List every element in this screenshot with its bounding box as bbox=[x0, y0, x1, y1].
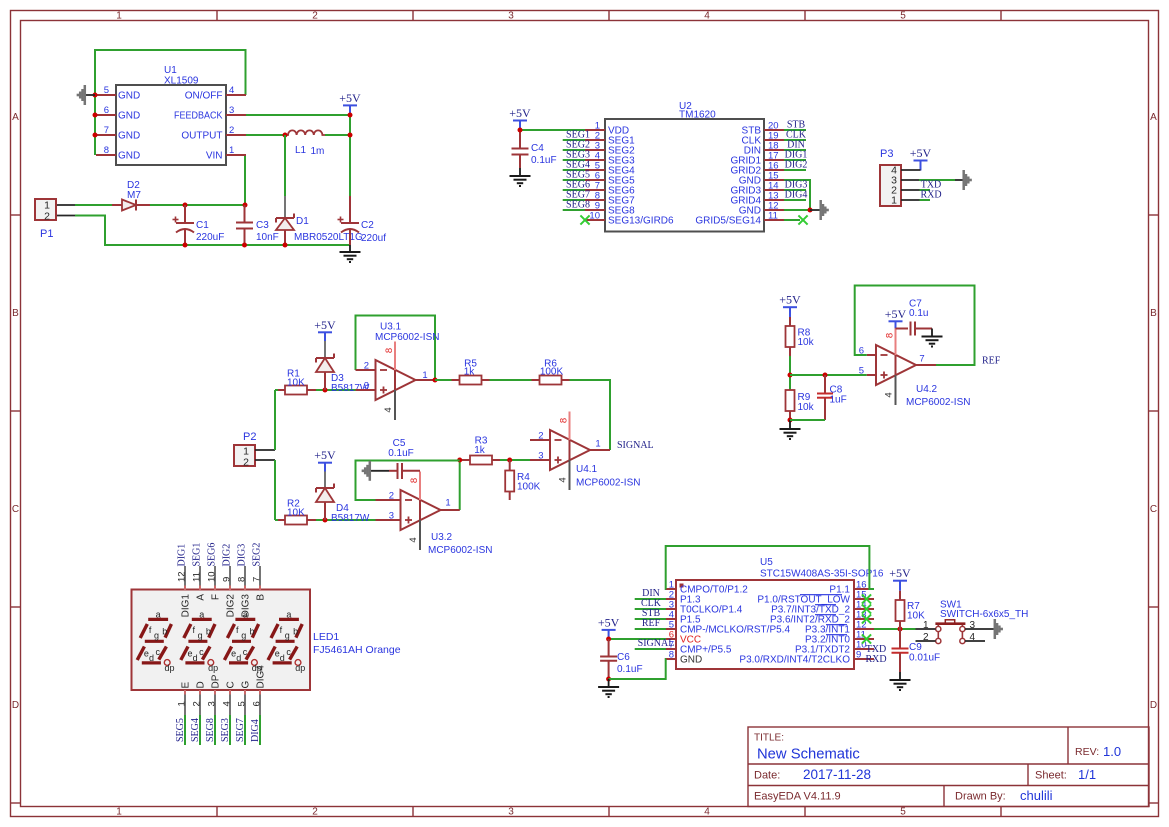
svg-text:TM1620: TM1620 bbox=[679, 110, 716, 121]
svg-text:0.1uF: 0.1uF bbox=[617, 664, 643, 675]
junction R8/R9 bbox=[788, 373, 793, 378]
svg-text:1: 1 bbox=[445, 498, 450, 509]
svg-text:2: 2 bbox=[243, 457, 249, 469]
net label SEG1 LED1 top bbox=[192, 543, 203, 567]
wire P1 pin1 stub bbox=[56, 204, 75, 206]
svg-text:3: 3 bbox=[389, 511, 394, 522]
net label DIG4 bbox=[785, 190, 808, 201]
net label SIGNAL bbox=[617, 440, 654, 451]
junction R9 bottom bbox=[788, 418, 793, 423]
svg-text:8: 8 bbox=[237, 577, 248, 582]
ground flag at P3 pin3 bbox=[964, 170, 971, 190]
net label DIG3 bbox=[785, 180, 808, 191]
net label SEG1 bbox=[566, 130, 590, 141]
svg-text:U1: U1 bbox=[164, 65, 177, 76]
svg-text:P3: P3 bbox=[880, 148, 893, 160]
svg-text:c: c bbox=[156, 647, 161, 657]
net label DIG1 bbox=[785, 150, 808, 161]
svg-text:220uf: 220uf bbox=[361, 233, 386, 244]
junction C1 bottom bbox=[183, 243, 188, 248]
junction VDD bbox=[518, 128, 523, 133]
net label TXD U5 bbox=[866, 644, 887, 655]
svg-text:B: B bbox=[256, 594, 267, 601]
svg-text:7: 7 bbox=[104, 125, 109, 136]
svg-text:c: c bbox=[199, 647, 204, 657]
power flag +5V at P3 bbox=[910, 146, 932, 171]
svg-text:GRID5/SEG14: GRID5/SEG14 bbox=[695, 216, 761, 227]
svg-text:2017-11-28: 2017-11-28 bbox=[803, 767, 871, 782]
svg-text:a: a bbox=[243, 610, 248, 620]
svg-text:DIG1: DIG1 bbox=[177, 544, 188, 567]
svg-text:SEG8: SEG8 bbox=[205, 718, 216, 742]
svg-text:12: 12 bbox=[177, 571, 188, 582]
diode D2 M7 bbox=[112, 180, 150, 211]
svg-text:C4: C4 bbox=[531, 143, 544, 154]
junction U2 GND bbox=[808, 208, 813, 213]
net label DIG1 LED1 top bbox=[177, 544, 188, 567]
wire net DIG3 bbox=[784, 189, 806, 191]
wire net SEG7 bbox=[563, 199, 585, 201]
svg-text:DIG4: DIG4 bbox=[785, 190, 808, 201]
svg-text:1uF: 1uF bbox=[830, 395, 847, 406]
diode D3 B5817W bbox=[316, 341, 370, 394]
junction pin5 bbox=[93, 93, 98, 98]
svg-text:+5V: +5V bbox=[779, 293, 801, 307]
svg-text:MCP6002-ISN: MCP6002-ISN bbox=[906, 397, 970, 408]
wire net SEG4 bbox=[199, 715, 201, 745]
LED display LED1 FJ5461AH bbox=[132, 590, 401, 691]
svg-text:SEG3: SEG3 bbox=[220, 718, 231, 742]
svg-text:DIG1: DIG1 bbox=[181, 594, 192, 618]
net label SEG6 bbox=[566, 180, 590, 191]
connector P2 bbox=[234, 431, 256, 469]
net label DIG3 LED1 top bbox=[237, 544, 248, 567]
IC U1 XL1509 bbox=[96, 65, 246, 165]
svg-text:10: 10 bbox=[589, 211, 600, 222]
svg-text:1: 1 bbox=[229, 145, 234, 156]
power flag +5V at U2 VDD bbox=[509, 106, 531, 131]
wire P2 pin2 to R2 bbox=[255, 460, 278, 520]
svg-text:+5V: +5V bbox=[509, 106, 531, 120]
capacitor C2 220uf bbox=[338, 196, 387, 245]
junction L1 left bbox=[283, 133, 288, 138]
ground earth below C4 bbox=[510, 168, 531, 186]
wire U3.1 feedback loop bbox=[356, 316, 436, 381]
junction R3/R4 bbox=[507, 458, 512, 463]
pin 12 LED1 top bbox=[177, 566, 192, 617]
svg-text:c: c bbox=[286, 647, 291, 657]
svg-text:GND: GND bbox=[118, 151, 140, 162]
wire net SEG5 bbox=[563, 179, 585, 181]
svg-text:2: 2 bbox=[44, 211, 50, 223]
wire C8 bottom to R9 bottom bbox=[790, 419, 825, 421]
svg-text:100K: 100K bbox=[540, 367, 564, 378]
svg-text:C3: C3 bbox=[256, 220, 269, 231]
capacitor C8 1uF bbox=[817, 375, 847, 420]
inductor L1 bbox=[285, 130, 325, 157]
svg-text:1: 1 bbox=[891, 195, 897, 207]
net label DIG2 LED1 top bbox=[222, 544, 233, 567]
svg-text:4: 4 bbox=[229, 85, 234, 96]
svg-text:b: b bbox=[206, 627, 211, 637]
svg-text:a: a bbox=[156, 610, 161, 620]
wire U2 pin11 bbox=[784, 219, 800, 221]
svg-text:4: 4 bbox=[408, 537, 419, 542]
svg-text:M7: M7 bbox=[127, 190, 141, 201]
svg-text:SEG1: SEG1 bbox=[192, 543, 203, 567]
net label RXD U5 bbox=[865, 654, 886, 665]
svg-text:220uF: 220uF bbox=[196, 232, 224, 243]
pin 8 LED1 top bbox=[237, 566, 252, 617]
pin 5 LED1 bottom bbox=[236, 681, 251, 716]
net label TXD at P3 bbox=[921, 180, 942, 191]
svg-text:XL1509: XL1509 bbox=[164, 76, 199, 87]
svg-text:A: A bbox=[1150, 112, 1157, 123]
junction +5V feedback bbox=[348, 113, 353, 118]
wire SW1 pin2 bbox=[916, 640, 936, 642]
wire SW1 pin1 bbox=[916, 628, 936, 630]
svg-text:8: 8 bbox=[104, 145, 109, 156]
wire net SEG6 bbox=[563, 189, 585, 191]
svg-text:2: 2 bbox=[312, 11, 318, 22]
svg-text:8: 8 bbox=[559, 418, 570, 423]
op-amp U3.2 MCP6002-ISN bbox=[376, 472, 493, 557]
svg-text:4: 4 bbox=[704, 11, 710, 22]
svg-text:3: 3 bbox=[508, 11, 514, 22]
svg-text:GND: GND bbox=[118, 131, 140, 142]
svg-text:MBR0520LT1G: MBR0520LT1G bbox=[294, 232, 363, 243]
op-amp U3.1 MCP6002-ISN bbox=[356, 322, 440, 421]
svg-text:1k: 1k bbox=[464, 367, 476, 378]
svg-text:9: 9 bbox=[856, 650, 861, 661]
svg-text:10: 10 bbox=[207, 571, 218, 582]
pin 9 LED1 top bbox=[222, 566, 237, 617]
svg-text:5: 5 bbox=[859, 366, 864, 377]
7-segment digit 4 bbox=[268, 610, 305, 674]
net label DIN bbox=[787, 140, 805, 151]
svg-text:GND: GND bbox=[118, 91, 140, 102]
svg-text:B: B bbox=[1150, 308, 1157, 319]
svg-text:SIGNAL: SIGNAL bbox=[617, 440, 654, 451]
svg-text:B: B bbox=[12, 308, 19, 319]
net label REF bbox=[982, 356, 1001, 367]
net label SEG5 bbox=[566, 170, 590, 181]
wire net SEG8 bbox=[563, 209, 585, 211]
svg-text:100K: 100K bbox=[517, 482, 541, 493]
svg-text:U3.1: U3.1 bbox=[380, 322, 402, 333]
svg-text:1: 1 bbox=[422, 370, 427, 381]
svg-text:d: d bbox=[193, 653, 198, 663]
wire net SEG1 bbox=[563, 139, 585, 141]
capacitor C7 0.1u bbox=[896, 299, 933, 336]
svg-text:1.0: 1.0 bbox=[1103, 744, 1121, 759]
wire U3.2 feedback loop bbox=[356, 461, 460, 511]
no-connect X U2 pin 10 bbox=[580, 215, 589, 224]
op-amp U4.2 MCP6002-ISN bbox=[859, 327, 971, 409]
svg-text:C: C bbox=[12, 504, 19, 515]
net label SEG8 LED1 bottom bbox=[205, 718, 216, 742]
svg-text:SEG13/GIRD6: SEG13/GIRD6 bbox=[608, 216, 674, 227]
no-connect X U2 pin 11 bbox=[798, 215, 807, 224]
wire U2 GND pin12 bbox=[784, 209, 810, 211]
svg-text:+5V: +5V bbox=[885, 307, 907, 321]
junction pin6 bbox=[93, 113, 98, 118]
power flag +5V at U5 VCC bbox=[598, 615, 620, 640]
svg-text:C6: C6 bbox=[617, 652, 630, 663]
IC U5 STC15W408AS bbox=[666, 557, 884, 669]
wire P2 pin1 to R1 bbox=[255, 390, 278, 450]
svg-text:6: 6 bbox=[251, 701, 262, 706]
svg-text:9: 9 bbox=[222, 577, 233, 582]
wire net SEG4 bbox=[563, 169, 585, 171]
svg-text:2: 2 bbox=[229, 125, 234, 136]
svg-text:REV:: REV: bbox=[1075, 746, 1099, 758]
wire P1 pin2 to ground rail bbox=[56, 216, 350, 246]
svg-text:B5817W: B5817W bbox=[331, 513, 370, 524]
wire R5 to R6 bbox=[490, 379, 532, 381]
junction D1 bottom bbox=[283, 243, 288, 248]
ground flag at U2 GND bbox=[810, 200, 828, 220]
wire net SIGNAL U5 bbox=[635, 648, 666, 650]
svg-text:MCP6002-ISN: MCP6002-ISN bbox=[428, 545, 492, 556]
svg-text:G: G bbox=[240, 681, 251, 689]
svg-text:D: D bbox=[1150, 700, 1157, 711]
svg-text:a: a bbox=[286, 610, 291, 620]
wire P3 pin3 to ground bbox=[901, 179, 963, 181]
resistor R6 100K bbox=[532, 359, 570, 385]
pin 11 LED1 top bbox=[192, 566, 207, 601]
svg-text:1/1: 1/1 bbox=[1078, 767, 1096, 782]
svg-text:Drawn By:: Drawn By: bbox=[955, 791, 1006, 803]
wire U5 pin1 loop to pin16 bbox=[666, 546, 874, 589]
svg-text:10k: 10k bbox=[798, 337, 815, 348]
svg-text:U4.1: U4.1 bbox=[576, 464, 598, 475]
svg-text:+5V: +5V bbox=[889, 566, 911, 580]
wire net SEG8 bbox=[214, 715, 216, 745]
capacitor C4 0.1uF bbox=[512, 130, 557, 168]
wire D2 output node bbox=[75, 204, 245, 206]
junction C8 top bbox=[823, 373, 828, 378]
wire R8 to R9 bbox=[789, 356, 791, 390]
net label RXD at P3 bbox=[920, 190, 941, 201]
junction U3.1 output bbox=[433, 378, 438, 383]
svg-text:OUTPUT: OUTPUT bbox=[181, 131, 222, 142]
ground earth below C6 bbox=[598, 679, 619, 697]
svg-text:SEG8: SEG8 bbox=[566, 200, 590, 211]
no-connect X U5 pin at y=609 bbox=[862, 604, 871, 613]
wire net SEG2 bbox=[563, 149, 585, 151]
capacitor C1 220uF bbox=[173, 205, 225, 245]
svg-text:10k: 10k bbox=[798, 402, 815, 413]
svg-text:Sheet:: Sheet: bbox=[1035, 770, 1067, 782]
svg-text:7: 7 bbox=[919, 354, 924, 365]
svg-text:2: 2 bbox=[364, 361, 369, 372]
svg-text:b: b bbox=[162, 627, 167, 637]
net label DIG4 LED1 bottom bbox=[250, 719, 261, 742]
svg-text:2: 2 bbox=[191, 701, 202, 706]
wire net SEG3 bbox=[563, 159, 585, 161]
svg-text:LED1: LED1 bbox=[313, 631, 339, 643]
no-connect X U5 pin at y=619 bbox=[862, 614, 871, 623]
junction pin7 bbox=[93, 133, 98, 138]
wire VIN down bbox=[244, 155, 246, 205]
wire R3 to U4.1 pin3 bbox=[500, 459, 530, 461]
svg-text:+5V: +5V bbox=[910, 146, 932, 160]
svg-text:1: 1 bbox=[176, 701, 187, 706]
pin 6 LED1 bottom bbox=[251, 665, 266, 715]
wire net STB bbox=[784, 129, 806, 131]
svg-text:C9: C9 bbox=[909, 642, 922, 653]
svg-text:DIG2: DIG2 bbox=[222, 544, 233, 567]
junction C3/VIN bbox=[243, 203, 248, 208]
svg-text:GND: GND bbox=[118, 111, 140, 122]
svg-text:g: g bbox=[241, 630, 246, 640]
svg-text:L1: L1 bbox=[295, 145, 307, 156]
resistor R8 10k bbox=[786, 317, 815, 356]
resistor R9 10k bbox=[786, 390, 815, 420]
svg-text:5: 5 bbox=[236, 701, 247, 706]
wire divider to U4.1 pin5 bbox=[790, 374, 867, 376]
junction C6 bottom bbox=[606, 677, 611, 682]
no-connect X U5 pin at y=599 bbox=[862, 594, 871, 603]
svg-text:Date:: Date: bbox=[754, 770, 780, 782]
svg-text:0.1uF: 0.1uF bbox=[388, 448, 414, 459]
svg-text:1: 1 bbox=[116, 807, 122, 818]
net label SEG8 bbox=[566, 200, 590, 211]
svg-text:D: D bbox=[12, 700, 19, 711]
svg-text:3: 3 bbox=[538, 451, 543, 462]
svg-text:b: b bbox=[293, 627, 298, 637]
junction VCC bbox=[606, 637, 611, 642]
wire U3.1 out to R5 bbox=[435, 379, 452, 381]
ground earth below R9 bbox=[780, 420, 801, 439]
svg-text:P1: P1 bbox=[40, 228, 53, 240]
net label SEG3 bbox=[566, 150, 590, 161]
wire U5 pin12 to R7/SW1 bbox=[874, 628, 916, 630]
svg-text:g: g bbox=[285, 630, 290, 640]
svg-text:U3.2: U3.2 bbox=[431, 532, 453, 543]
IC U2 TM1620 bbox=[585, 101, 784, 232]
power flag +5V at R7 bbox=[889, 566, 911, 591]
svg-text:SWITCH-6x6x5_TH: SWITCH-6x6x5_TH bbox=[940, 609, 1028, 620]
ground flag at SW1 pin3 bbox=[995, 619, 1002, 639]
svg-text:g: g bbox=[198, 630, 203, 640]
connector P1 bbox=[35, 199, 56, 240]
wire net SEG3 bbox=[229, 715, 231, 745]
wire net REF U5 bbox=[635, 628, 666, 630]
svg-text:0.1u: 0.1u bbox=[909, 308, 928, 319]
svg-text:5: 5 bbox=[104, 85, 109, 96]
wire R6 to U4.1 output node bbox=[570, 380, 611, 450]
junction L1 right +5V bbox=[348, 133, 353, 138]
svg-text:SEG4: SEG4 bbox=[190, 718, 201, 742]
svg-text:SEG5: SEG5 bbox=[175, 718, 186, 742]
net label CLK U5 bbox=[641, 598, 662, 609]
svg-text:+5V: +5V bbox=[314, 448, 336, 462]
svg-text:DIG3: DIG3 bbox=[237, 544, 248, 567]
net label SEG4 bbox=[566, 160, 590, 171]
svg-text:U4.2: U4.2 bbox=[916, 384, 938, 395]
svg-text:4: 4 bbox=[704, 807, 710, 818]
wire U1 feedback loop top bbox=[95, 50, 246, 155]
svg-text:8: 8 bbox=[409, 478, 420, 483]
capacitor C9 0.01uF bbox=[892, 629, 941, 672]
wire +5V rail right bbox=[246, 105, 350, 196]
svg-text:F: F bbox=[211, 594, 222, 600]
svg-text:b: b bbox=[249, 627, 254, 637]
resistor R1 10K bbox=[278, 369, 316, 395]
wire U4.2 feedback loop bbox=[855, 286, 975, 366]
svg-text:1k: 1k bbox=[474, 445, 486, 456]
svg-text:P2: P2 bbox=[243, 431, 256, 443]
connector P3 bbox=[880, 148, 901, 207]
svg-text:a: a bbox=[199, 610, 204, 620]
svg-text:10nF: 10nF bbox=[256, 232, 279, 243]
svg-text:EasyEDA V4.11.9: EasyEDA V4.11.9 bbox=[754, 791, 841, 803]
pin 2 LED1 bottom bbox=[191, 681, 206, 715]
junction D3 anode bbox=[323, 388, 328, 393]
power flag +5V at U4.2 pin8 bbox=[885, 307, 907, 329]
net label SEG4 LED1 bottom bbox=[190, 718, 201, 742]
net label SEG2 bbox=[566, 140, 590, 151]
svg-text:1: 1 bbox=[116, 11, 122, 22]
svg-text:5: 5 bbox=[900, 11, 906, 22]
junction C3 bottom bbox=[242, 243, 247, 248]
svg-text:U5: U5 bbox=[760, 557, 773, 568]
svg-text:3: 3 bbox=[229, 105, 234, 116]
svg-text:10K: 10K bbox=[287, 508, 305, 519]
net label STB bbox=[787, 120, 806, 131]
svg-text:dp: dp bbox=[295, 663, 305, 673]
svg-text:SEG6: SEG6 bbox=[207, 543, 218, 567]
op-amp U4.1 MCP6002-ISN bbox=[530, 412, 640, 491]
svg-text:C2: C2 bbox=[361, 220, 374, 231]
svg-text:2: 2 bbox=[389, 491, 394, 502]
svg-text:1: 1 bbox=[595, 439, 600, 450]
svg-text:GND: GND bbox=[680, 655, 702, 666]
net label DIG2 bbox=[785, 160, 808, 171]
pin 7 LED1 top bbox=[252, 566, 267, 601]
svg-text:d: d bbox=[280, 653, 285, 663]
svg-text:SEG7: SEG7 bbox=[235, 718, 246, 742]
net label SEG7 bbox=[566, 190, 590, 201]
svg-text:RXD: RXD bbox=[865, 654, 886, 665]
svg-text:7: 7 bbox=[252, 577, 263, 582]
junction R7 bottom bbox=[898, 627, 903, 632]
switch SW1 SWITCH-6x6x5_TH bbox=[923, 600, 1028, 644]
svg-text:C1: C1 bbox=[196, 220, 209, 231]
pin 10 LED1 top bbox=[207, 566, 222, 600]
resistor R7 10K bbox=[896, 591, 926, 629]
wire net CLK U5 bbox=[635, 608, 666, 610]
svg-text:3: 3 bbox=[364, 381, 369, 392]
svg-text:4: 4 bbox=[221, 701, 232, 706]
wire VDD bbox=[520, 129, 585, 131]
svg-text:c: c bbox=[243, 647, 248, 657]
wire R2 to U3.2 pin3 bbox=[316, 519, 376, 521]
svg-text:0.01uF: 0.01uF bbox=[909, 653, 940, 664]
svg-text:New Schematic: New Schematic bbox=[757, 747, 860, 763]
svg-text:2: 2 bbox=[312, 807, 318, 818]
pin 1 LED1 bottom bbox=[176, 682, 191, 716]
resistor R3 1k bbox=[462, 436, 500, 465]
net label SEG3 LED1 bottom bbox=[220, 718, 231, 742]
svg-text:TITLE:: TITLE: bbox=[754, 733, 784, 744]
svg-text:3: 3 bbox=[508, 807, 514, 818]
ground flag at C5 bbox=[363, 461, 389, 481]
power flag +5V U1 output bbox=[339, 91, 361, 116]
wire net DIN U5 bbox=[635, 598, 666, 600]
